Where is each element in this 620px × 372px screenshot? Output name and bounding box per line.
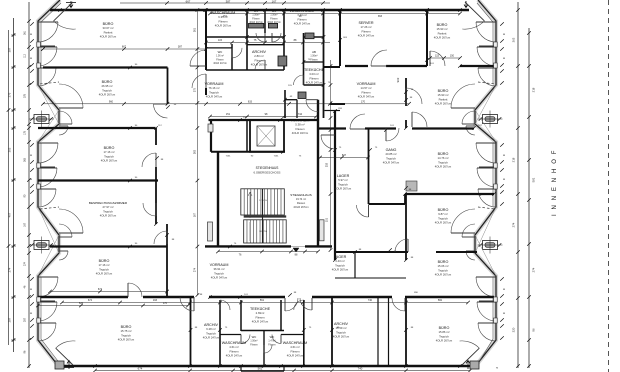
svg-text:387: 387	[178, 46, 183, 49]
bottom wall ticks	[93, 364, 97, 368]
svg-text:4OLR 267cm: 4OLR 267cm	[434, 36, 451, 40]
dimension ticks left outer	[12, 33, 16, 37]
section arrow bottom right	[466, 361, 470, 370]
right tip small door 2	[466, 251, 475, 260]
dimension ticks right inner	[516, 8, 520, 12]
svg-text:18 STG: 18 STG	[259, 231, 267, 233]
facade column left 2	[34, 241, 49, 250]
svg-text:193: 193	[153, 299, 158, 302]
svg-text:287: 287	[8, 317, 12, 322]
svg-text:4OLR 347cm: 4OLR 347cm	[383, 161, 400, 165]
svg-text:318: 318	[532, 87, 536, 92]
svg-text:740: 740	[368, 299, 373, 302]
left tip door 1	[59, 84, 83, 108]
core left wall	[217, 152, 219, 247]
svg-text:151: 151	[326, 217, 329, 222]
svg-text:4OLR 267cm: 4OLR 267cm	[435, 221, 452, 225]
svg-text:4OLR 267cm: 4OLR 267cm	[101, 159, 118, 163]
svg-text:19.74 m²: 19.74 m²	[296, 197, 306, 201]
section arrow top right	[464, 1, 468, 8]
left tip small door 2	[59, 251, 68, 260]
svg-text:4OLR 347cm: 4OLR 347cm	[211, 276, 228, 280]
facade jamb ticks	[30, 22, 34, 26]
left facade wall	[38, 0, 60, 368]
shaft wc 1	[249, 23, 264, 28]
svg-text:4OLR 267cm: 4OLR 267cm	[293, 205, 308, 209]
interior walls	[43, 66, 168, 68]
stair landing edge	[244, 215, 287, 217]
section arrow top left	[69, 1, 73, 8]
dim chain core bottom	[218, 251, 318, 253]
svg-text:151: 151	[223, 15, 228, 18]
dim chain core top ticks	[210, 116, 316, 118]
top wall ticks	[58, 8, 62, 12]
bottom left corner door	[56, 341, 76, 348]
core window left	[208, 222, 213, 241]
top left corner door	[54, 21, 76, 29]
core bottom wall	[205, 245, 291, 247]
svg-text:4OLR 267cm: 4OLR 267cm	[251, 63, 268, 67]
dim chain bottom inner	[62, 302, 468, 304]
svg-text:4OLR 247cm: 4OLR 247cm	[306, 81, 323, 85]
dimension ticks left inner	[27, 19, 31, 23]
elevator shaft	[250, 120, 284, 152]
svg-text:4OLR 267cm: 4OLR 267cm	[335, 187, 352, 191]
dim chain büro1	[43, 48, 206, 50]
svg-text:467: 467	[8, 212, 12, 217]
svg-text:167: 167	[272, 0, 277, 4]
svg-text:167: 167	[24, 222, 27, 227]
dimension ticks right outer	[527, 31, 531, 35]
svg-text:4OLR 247cm: 4OLR 247cm	[226, 354, 243, 358]
svg-text:4OLR 347cm: 4OLR 347cm	[206, 95, 223, 99]
svg-text:375: 375	[24, 93, 27, 98]
facade window sills	[37, 42, 41, 47]
svg-text:363: 363	[378, 15, 383, 18]
svg-text:4OLR 267cm: 4OLR 267cm	[435, 273, 452, 277]
right tip door 1	[451, 84, 475, 108]
svg-text:274: 274	[24, 261, 27, 266]
svg-text:4OLR 267cm: 4OLR 267cm	[99, 93, 116, 97]
left facade wall halo	[38, 0, 60, 368]
svg-text:I N N E N H O F: I N N E N H O F	[552, 149, 558, 216]
facade recess glazing right 1	[475, 85, 496, 142]
dim chain lager	[320, 157, 368, 159]
svg-text:4OLR 267cm: 4OLR 267cm	[215, 24, 232, 28]
svg-text:4OLR 267cm: 4OLR 267cm	[100, 35, 117, 39]
stair walk line	[248, 192, 252, 241]
svg-text:960: 960	[109, 100, 114, 103]
svg-text:847: 847	[342, 154, 347, 157]
right facade inner face	[477, 3, 493, 365]
svg-text:318: 318	[326, 162, 329, 167]
svg-text:287: 287	[24, 317, 27, 322]
svg-text:115: 115	[218, 39, 223, 42]
svg-text:7161: 7161	[226, 156, 232, 158]
svg-text:375: 375	[8, 92, 12, 97]
shaft archiv	[278, 56, 287, 66]
core mid wall	[211, 151, 285, 153]
shaft waschraum2	[305, 33, 314, 39]
svg-text:274: 274	[532, 267, 536, 272]
svg-text:6.OBERGESCHOSS: 6.OBERGESCHOSS	[254, 170, 281, 174]
svg-text:361: 361	[194, 27, 197, 32]
top exterior wall	[50, 9, 469, 12]
svg-text:1.56m²: 1.56m²	[270, 14, 277, 17]
svg-text:Fliesen: Fliesen	[216, 59, 224, 61]
svg-text:170: 170	[361, 100, 366, 103]
svg-text:167: 167	[194, 212, 197, 217]
svg-text:115: 115	[435, 55, 440, 58]
svg-text:175: 175	[24, 130, 27, 135]
svg-text:4OLR 347cm: 4OLR 347cm	[358, 95, 375, 99]
svg-text:363: 363	[512, 37, 516, 42]
svg-text:Fliesen: Fliesen	[297, 201, 306, 205]
dim chain büro2	[43, 103, 409, 105]
svg-text:7161: 7161	[274, 156, 280, 158]
svg-text:318: 318	[512, 157, 516, 162]
facade column right 1	[483, 115, 498, 124]
section arrow bottom left	[67, 361, 71, 370]
svg-text:4OLR 267cm: 4OLR 267cm	[118, 338, 135, 342]
svg-text:1.47m²: 1.47m²	[268, 340, 275, 343]
dim chain bespr	[50, 291, 167, 293]
elevator car	[257, 126, 275, 146]
facade recess glazing left 2	[38, 207, 59, 276]
dimension line right inner	[517, 2, 519, 368]
interior door arcs	[154, 104, 168, 118]
dimension line far left	[8, 30, 10, 345]
facade column right 2	[483, 241, 498, 250]
svg-text:363: 363	[24, 157, 27, 162]
svg-text:375: 375	[194, 87, 197, 92]
dimension line bottom	[95, 370, 470, 372]
svg-text:363: 363	[194, 149, 197, 154]
facade recess glazing left 1	[38, 85, 59, 142]
facade recess glazing right 2	[475, 207, 496, 276]
svg-text:667: 667	[122, 46, 127, 49]
tip dashed glass left 1	[40, 82, 59, 84]
svg-text:AB: AB	[312, 50, 316, 54]
svg-text:274: 274	[8, 267, 12, 272]
svg-text:361: 361	[24, 30, 27, 35]
tip dashed glass left 2	[40, 207, 59, 209]
dim chain x330	[330, 60, 332, 250]
core right wall	[317, 100, 319, 247]
svg-text:561: 561	[260, 299, 265, 302]
dim chain top inner	[210, 13, 460, 15]
svg-text:STIEGENHAUS: STIEGENHAUS	[290, 193, 312, 197]
svg-text:744: 744	[298, 113, 303, 116]
top right corner door	[462, 21, 484, 29]
svg-text:667: 667	[186, 0, 191, 4]
svg-text:4OLR 247cm: 4OLR 247cm	[213, 63, 227, 65]
facade column bottom left	[55, 361, 64, 369]
svg-text:581: 581	[532, 177, 536, 182]
core door threshold	[293, 248, 299, 252]
shaft corridor	[298, 92, 306, 99]
right facade wall halo	[474, 0, 496, 368]
svg-text:4OLR 247cm: 4OLR 247cm	[294, 22, 311, 26]
plot boundary dashed line	[608, 0, 610, 372]
tip dashed glass right 1	[478, 82, 495, 84]
gang door threshold	[406, 181, 417, 191]
bottom right corner door	[460, 341, 480, 348]
svg-text:674: 674	[98, 288, 103, 291]
left facade inner face	[41, 3, 61, 365]
svg-text:4OLR 267cm: 4OLR 267cm	[100, 214, 117, 218]
svg-text:387: 387	[226, 0, 231, 4]
svg-text:150: 150	[450, 55, 455, 58]
core left wall upper	[210, 120, 212, 152]
svg-text:1.56m²: 1.56m²	[252, 14, 259, 17]
stair railing	[262, 189, 264, 243]
left tip door 2	[59, 209, 83, 233]
svg-text:363: 363	[8, 147, 12, 152]
svg-text:4OLR 247cm: 4OLR 247cm	[358, 34, 375, 38]
svg-text:4OLR 267cm: 4OLR 267cm	[332, 268, 349, 272]
svg-text:112: 112	[24, 53, 27, 57]
left tip small door 1	[59, 126, 68, 135]
dimension line left outer	[13, 18, 15, 352]
core window nw	[208, 124, 213, 132]
dimension line left inner	[28, 2, 30, 368]
dimension line right outer	[528, 28, 530, 368]
svg-text:274: 274	[512, 222, 516, 227]
svg-text:1.56m²: 1.56m²	[310, 55, 317, 58]
svg-text:4OLR 267cm: 4OLR 267cm	[435, 165, 452, 169]
svg-text:4OLR 267cm: 4OLR 267cm	[436, 339, 453, 343]
svg-text:Fliesen: Fliesen	[310, 59, 318, 61]
svg-text:387: 387	[8, 47, 12, 52]
tip dashed glass right 2	[478, 207, 495, 209]
stair upper flight	[241, 189, 284, 215]
svg-text:WC: WC	[254, 9, 259, 13]
svg-text:WC: WC	[272, 9, 277, 13]
right facade wall	[474, 0, 496, 368]
svg-text:963: 963	[396, 77, 400, 82]
dimension ticks bottom	[93, 369, 97, 372]
svg-text:Fliesen: Fliesen	[250, 344, 258, 346]
svg-text:151: 151	[226, 113, 231, 116]
dim chain cluster	[206, 42, 330, 44]
svg-text:Fliesen: Fliesen	[252, 18, 260, 20]
core nw divider	[246, 120, 248, 152]
right tip door 2	[451, 209, 475, 233]
dimension line top	[120, 2, 330, 4]
svg-text:4OLR 267cm: 4OLR 267cm	[96, 272, 113, 276]
svg-text:633: 633	[248, 100, 253, 103]
right facade door arcs	[476, 22, 496, 42]
svg-text:582: 582	[438, 299, 443, 302]
small dim marks scatter	[166, 105, 170, 109]
svg-text:674: 674	[88, 299, 93, 302]
svg-text:Fliesen: Fliesen	[270, 18, 278, 20]
shaft wc 2	[268, 23, 277, 28]
svg-text:1.56 m²: 1.56 m²	[216, 55, 224, 58]
dimension ticks top	[165, 1, 169, 5]
svg-text:4OLR 267cm: 4OLR 267cm	[435, 102, 452, 106]
svg-text:4OLR 247cm: 4OLR 247cm	[203, 336, 220, 340]
core window right	[320, 220, 325, 241]
facade column bottom right	[470, 361, 479, 369]
svg-text:320: 320	[512, 327, 516, 332]
right tip small door 1	[466, 126, 475, 135]
bottom exterior wall	[59, 365, 475, 368]
left facade door arcs	[38, 22, 58, 42]
svg-text:WC: WC	[218, 50, 223, 54]
svg-text:4OLR 347cm: 4OLR 347cm	[292, 131, 309, 135]
svg-text:WC: WC	[270, 335, 275, 339]
svg-text:96: 96	[532, 328, 536, 332]
facade column left 1	[34, 115, 49, 124]
dim chain büro5	[38, 305, 188, 307]
svg-text:WC: WC	[252, 335, 257, 339]
svg-text:274: 274	[194, 267, 197, 272]
core top wall	[209, 119, 319, 121]
dim chain right wing top	[430, 57, 460, 59]
svg-text:4OLR 267cm: 4OLR 267cm	[333, 335, 350, 339]
svg-text:17 STG: 17 STG	[259, 200, 267, 202]
svg-text:4OLR 247cm: 4OLR 247cm	[287, 354, 304, 358]
dim chain corridor vertical	[196, 9, 198, 295]
stair lower flight	[244, 220, 287, 243]
svg-text:Fliesen: Fliesen	[268, 344, 276, 346]
svg-text:1.56m²: 1.56m²	[250, 340, 257, 343]
svg-text:4OLR 247cm: 4OLR 247cm	[252, 320, 269, 324]
